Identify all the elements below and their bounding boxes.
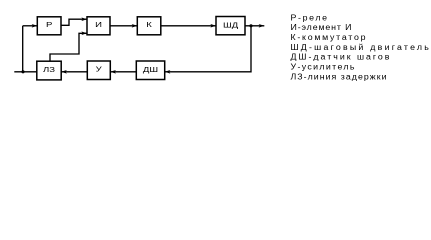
svg-text:У-усилитель: У-усилитель: [290, 62, 355, 72]
svg-text:ЛЗ: ЛЗ: [43, 65, 55, 74]
svg-text:И: И: [95, 20, 102, 29]
svg-text:К-коммутатор: К-коммутатор: [290, 32, 365, 42]
svg-text:ШД-шаговый двигатель: ШД-шаговый двигатель: [290, 42, 429, 52]
svg-text:ШД: ШД: [223, 20, 238, 29]
svg-text:ЛЗ-линия задержки: ЛЗ-линия задержки: [290, 72, 386, 82]
svg-text:К: К: [146, 20, 152, 29]
svg-text:И-элемент И: И-элемент И: [290, 22, 351, 32]
svg-text:Р: Р: [46, 20, 53, 29]
svg-text:Р-реле: Р-реле: [290, 13, 327, 23]
svg-text:ДШ: ДШ: [143, 65, 158, 74]
svg-text:ДШ-датчик шагов: ДШ-датчик шагов: [290, 52, 390, 62]
svg-text:У: У: [96, 65, 103, 74]
